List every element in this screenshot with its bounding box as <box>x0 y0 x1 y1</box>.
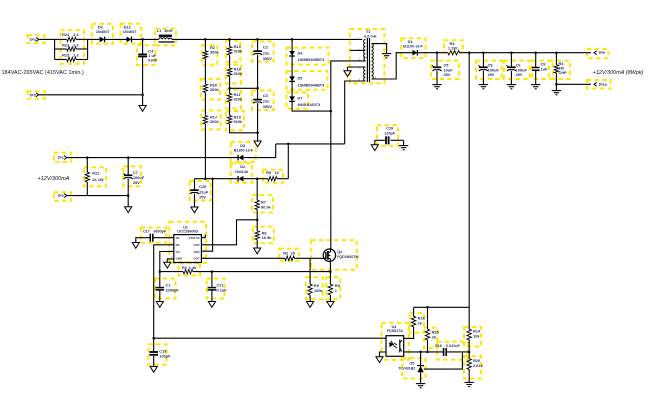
svg-text:TP5: TP5 <box>29 93 36 97</box>
ground output return (earth) <box>552 84 561 95</box>
highlight box D1 <box>401 38 425 58</box>
svg-text:10: 10 <box>275 170 279 175</box>
op-amp U1 UCC28600D <box>171 226 205 263</box>
highlight box R17 <box>201 111 221 130</box>
wire R19 bottom to bulk cap chain <box>230 124 258 133</box>
node R15 tap <box>426 306 429 309</box>
highlight box R9 <box>306 277 323 299</box>
svg-text:1 1W: 1 1W <box>448 45 457 50</box>
wire R2 to R20 <box>204 59 206 84</box>
svg-text:UCC28600D: UCC28600D <box>177 230 198 234</box>
highlight box TP1 <box>54 153 71 162</box>
svg-text:CS: CS <box>176 250 180 254</box>
svg-text:C16: C16 <box>435 344 442 348</box>
capacitor C17 6800pF <box>136 230 174 243</box>
wire U4 collector row <box>404 351 444 353</box>
svg-text:2k 1W: 2k 1W <box>92 177 104 182</box>
capacitor C5 10uF 25V <box>432 53 453 85</box>
highlight box C2 <box>252 41 274 61</box>
svg-text:300k: 300k <box>210 50 219 55</box>
node R4 tap <box>555 51 558 54</box>
wire snubber return to drain <box>292 101 331 111</box>
resistor R5 10 <box>263 170 278 181</box>
ground below C5 (earth) <box>432 84 441 86</box>
svg-text:910k: 910k <box>234 96 243 101</box>
svg-text:16.9k: 16.9k <box>262 235 273 240</box>
wire U5 ref to divider <box>424 352 463 369</box>
resistor R6 16.9k <box>255 220 272 248</box>
ground below C7 <box>125 207 132 213</box>
wire D2 to R5 <box>243 178 263 180</box>
svg-text:630V: 630V <box>148 58 157 63</box>
svg-text:+12V/300mA: +12V/300mA <box>38 176 70 182</box>
resistor R20 300k <box>203 82 219 92</box>
resistor R1 1.4k <box>160 265 331 274</box>
node balance tap right <box>256 87 259 90</box>
wire FB to optocoupler <box>154 245 386 338</box>
highlight box R18 <box>226 65 241 84</box>
highlight box C16 <box>437 342 468 360</box>
resistor R25 <box>55 53 88 62</box>
wire VDD node rail <box>195 178 239 180</box>
svg-text:R2: R2 <box>283 250 289 255</box>
highlight box U1 <box>169 222 206 263</box>
svg-text:1SMB5949BT3: 1SMB5949BT3 <box>298 83 326 88</box>
wire R11 to R19 <box>229 102 231 116</box>
highlight box C7 <box>123 166 141 186</box>
ground below R26 (earth) <box>465 381 474 383</box>
svg-text:D3: D3 <box>240 143 246 148</box>
ground below bulk caps <box>254 141 261 147</box>
svg-text:90.9k: 90.9k <box>261 204 272 209</box>
diode D6 1N4007 <box>96 25 110 43</box>
wire R20 to R17 <box>204 93 206 116</box>
resistor R8 1 <box>328 283 340 301</box>
resistor R17 300k <box>203 115 219 124</box>
node snubber/drain junction <box>330 110 333 113</box>
resistor R11 910k <box>227 92 243 102</box>
svg-text:910k: 910k <box>234 49 243 54</box>
ground below C6 (earth) <box>507 84 516 86</box>
node divider junction <box>468 351 471 354</box>
ground U4 emitter <box>376 357 383 363</box>
ground secondary top (earth) <box>382 53 391 55</box>
node C5 tap <box>436 51 439 54</box>
resistor R4 1M CHP <box>554 53 567 75</box>
node R15 bottom junction <box>426 351 429 354</box>
ground below C20 <box>191 207 198 213</box>
highlight box C29 <box>377 125 398 146</box>
highlight box D2 <box>231 163 253 182</box>
wire U4 emitter to ground <box>380 352 387 357</box>
wire R13 to R18 <box>229 55 231 68</box>
wire resistor network right bracket <box>87 39 89 59</box>
svg-text:910k: 910k <box>234 71 243 76</box>
node CS/R1/C1 junction <box>159 270 162 273</box>
wire primary bottom to drain line <box>331 61 366 249</box>
node C3 / R19 junction <box>256 132 259 135</box>
node C9 tap <box>534 51 537 54</box>
ground below R8 <box>327 302 334 308</box>
capacitor C21 0.1uF <box>208 272 228 302</box>
svg-text:1.4k: 1.4k <box>189 265 197 270</box>
svg-text:Q2: Q2 <box>337 250 342 254</box>
highlight box R14 <box>464 327 481 347</box>
node C21 tap <box>211 270 214 273</box>
highlight box D4 <box>287 48 329 65</box>
node R5 riser junction <box>287 143 290 146</box>
test point TP1 <box>57 156 67 160</box>
highlight box TP4 <box>28 35 45 43</box>
capacitor C8 100uF 25V <box>478 53 499 85</box>
highlight box U5 <box>402 358 425 378</box>
wire midpoint balance tap <box>230 87 258 89</box>
node C8 tap <box>482 51 485 54</box>
svg-text:U5: U5 <box>410 361 415 365</box>
diode D5 1SMB5949BT3 <box>289 76 325 88</box>
svg-text:MURA160T3: MURA160T3 <box>298 102 322 107</box>
highlight box U4 <box>381 323 409 360</box>
highlight box C21 <box>207 279 225 299</box>
resistor R18 910k <box>227 66 243 76</box>
wire R5 to riser <box>277 178 288 180</box>
ground below C8 (earth) <box>479 84 488 86</box>
node C6 tap <box>510 51 513 54</box>
svg-text:100pF: 100pF <box>159 354 171 359</box>
capacitor C9 1uF <box>532 53 548 85</box>
svg-text:TP9: TP9 <box>598 51 605 55</box>
wire Q2 source down <box>329 261 331 284</box>
ground below C4 <box>139 95 146 112</box>
highlight box D7 <box>287 92 309 108</box>
wire resistor network left bracket <box>54 39 56 59</box>
node FB/C19 junction <box>152 337 155 340</box>
node rail R2 tap <box>204 38 207 41</box>
diode D7 MURA160T3 <box>289 96 321 108</box>
wire D3 anode to riser <box>243 157 275 159</box>
svg-text:C2: C2 <box>263 45 269 50</box>
svg-text:VDD: VDD <box>193 250 199 254</box>
svg-text:GND: GND <box>176 257 182 261</box>
highlight box D12 <box>121 24 142 44</box>
wire R5 riser <box>287 144 289 179</box>
node R7 top junction <box>256 177 259 180</box>
wire R4 to return rail <box>555 73 557 84</box>
highlight box D3 <box>231 142 256 162</box>
node C7 top <box>127 156 130 159</box>
svg-text:TP10: TP10 <box>598 83 607 87</box>
wire D4 to D5 <box>291 56 293 76</box>
optocoupler U4 FOD817A <box>386 325 404 356</box>
wire OVP step <box>201 220 257 245</box>
highlight box C4 <box>137 45 156 65</box>
wire TP1 rail to D3 <box>67 157 238 159</box>
highlight box C8 <box>476 61 502 79</box>
svg-text:D4: D4 <box>298 50 304 55</box>
diode D3 B1100-13-F <box>234 143 254 160</box>
svg-text:OVP: OVP <box>193 243 199 247</box>
diode D1 B1100-13-F <box>403 39 423 56</box>
highlight box R6 <box>253 227 274 244</box>
svg-text:SS: SS <box>176 236 180 240</box>
svg-text:0.022uF: 0.022uF <box>446 344 460 348</box>
node source/R1 junction <box>329 270 332 273</box>
node C4 tap junction <box>141 38 144 41</box>
wire network to D6 <box>88 38 100 40</box>
node R7/R6 junction <box>256 219 259 222</box>
resistor R24 <box>55 32 88 42</box>
highlight box R20 <box>201 79 220 100</box>
svg-text:B1100-13-F: B1100-13-F <box>234 149 254 153</box>
svg-text:350V: 350V <box>263 56 272 61</box>
node neutral/C4 junction <box>141 94 144 97</box>
ground below C1 <box>156 302 163 308</box>
ground below U5 (earth) <box>416 383 425 385</box>
highlight box TP5 <box>28 91 46 98</box>
svg-text:300k: 300k <box>210 119 219 124</box>
ground below R9 <box>307 302 314 308</box>
highlight box C9 <box>532 61 553 79</box>
svg-text:1N4007: 1N4007 <box>96 29 110 34</box>
resistor R2 10 (gate) <box>283 250 295 260</box>
wire gate resistor to Q2 <box>294 257 323 259</box>
svg-text:10k: 10k <box>473 334 480 339</box>
svg-text:D1: D1 <box>408 39 414 44</box>
highlight box R19 <box>226 111 244 130</box>
highlight box R4 <box>549 61 570 79</box>
node VDD riser junction <box>211 177 214 180</box>
capacitor C16 0.022uF <box>435 344 469 356</box>
resistor R3 1 1W <box>446 41 460 55</box>
svg-text:22u: 22u <box>263 50 270 55</box>
diode D12 1N4007 <box>123 25 137 43</box>
wire D5 to D7 <box>291 81 293 96</box>
ground below C21 <box>208 302 215 308</box>
wire D3 riser <box>275 144 277 158</box>
svg-text:FOD817A: FOD817A <box>387 329 404 333</box>
svg-text:R23: R23 <box>62 42 70 47</box>
wire feedback top rail <box>414 306 470 308</box>
resistor R2 300k <box>203 39 219 58</box>
svg-text:22u: 22u <box>263 99 270 104</box>
capacitor C1 1000pF <box>156 272 180 302</box>
ground below C9 (earth) <box>531 84 540 86</box>
svg-text:CHP: CHP <box>558 70 567 75</box>
highlight box C17 <box>141 228 167 243</box>
svg-text:1uF: 1uF <box>541 66 549 71</box>
diode D4 1SMB5949BT3 <box>289 39 325 62</box>
resistor R9 100k <box>308 258 323 301</box>
wire secondary bottom to D1 <box>372 53 413 79</box>
wire TP4 to resistor network <box>39 38 54 40</box>
svg-text:FQD2N60TM: FQD2N60TM <box>337 255 358 259</box>
node rail snubber tap <box>291 38 294 41</box>
svg-text:25V: 25V <box>133 180 140 185</box>
svg-text:220pF: 220pF <box>384 131 395 135</box>
wire primary centre tap stub <box>350 49 366 51</box>
resistor R22 2k 1W <box>85 158 104 196</box>
highlight box TP10 <box>587 80 611 89</box>
svg-text:25V: 25V <box>488 72 495 77</box>
svg-text:1mH: 1mH <box>164 28 173 33</box>
ground below R6 <box>254 248 261 254</box>
inductor L1 1mH <box>157 28 175 43</box>
capacitor C7 100uF 25V <box>123 158 144 207</box>
svg-text:25V: 25V <box>199 194 206 199</box>
wire output return rail <box>556 83 591 85</box>
svg-text:184VAC-265VAC (415VAC 1min.): 184VAC-265VAC (415VAC 1min.) <box>2 70 84 76</box>
highlight box R24/R23/R25 network <box>60 30 84 64</box>
highlight box T1 <box>350 29 385 83</box>
resistor R19 910k <box>227 115 243 124</box>
wire OUT to gate resistor <box>201 257 284 259</box>
svg-text:1SMB5949BT3: 1SMB5949BT3 <box>298 57 326 62</box>
svg-text:C17: C17 <box>143 230 150 234</box>
ground aux winding top <box>344 67 351 77</box>
ground below C19 <box>150 367 157 373</box>
highlight box C19 <box>148 344 166 365</box>
wire output rail <box>459 52 591 54</box>
highlight box R13 <box>226 41 240 62</box>
capacitor C19 100pF <box>149 338 171 366</box>
highlight box C1 <box>155 279 176 299</box>
highlight box C6 <box>504 61 530 79</box>
svg-text:FB: FB <box>176 243 180 247</box>
svg-text:C3: C3 <box>263 93 269 98</box>
wire TP5 neutral rail <box>39 94 142 96</box>
test point TP2 <box>57 194 67 198</box>
resistor R13 910k <box>227 39 243 55</box>
wire U4 anode to R16 <box>404 327 414 339</box>
highlight box TP9 <box>587 49 608 58</box>
node U5 tap <box>419 351 422 354</box>
svg-text:TP1: TP1 <box>57 156 64 160</box>
wire GND pin <box>167 259 174 262</box>
svg-text:6800pF: 6800pF <box>154 230 167 234</box>
capacitor C20 22uF 25V <box>190 179 209 207</box>
wire TP2 rail <box>67 195 128 197</box>
capacitor C6 100uF 25V <box>506 53 527 85</box>
wire secondary top to ground <box>372 44 387 54</box>
wire CS to sense node <box>160 252 174 272</box>
highlight box R16 <box>410 313 424 333</box>
wire STATUS stub <box>201 235 205 238</box>
highlight box R3 <box>444 40 463 52</box>
highlight box R15 <box>424 328 437 349</box>
svg-text:25V: 25V <box>444 72 451 77</box>
svg-text:1000pF: 1000pF <box>165 288 179 293</box>
highlight box C20 <box>190 181 211 201</box>
highlight box L1 <box>155 29 176 46</box>
wire R17 to VDD node <box>204 124 206 179</box>
highlight box D6 <box>92 24 113 44</box>
resistor R14 10k <box>467 329 481 352</box>
test point TP4 <box>29 38 39 42</box>
highlight box R7 <box>252 195 273 212</box>
shunt regulator U5 TLV431B2 <box>398 352 424 384</box>
ground C29 left (arrow) <box>371 140 378 150</box>
test point TP5 <box>29 93 39 97</box>
svg-text:910k: 910k <box>234 119 243 124</box>
transistor Q2 FQD2N60TM <box>323 248 358 261</box>
svg-text:TP2: TP2 <box>57 194 64 198</box>
highlight box R2 <box>202 45 217 65</box>
node feedback tap <box>468 51 471 54</box>
wire aux bottom to bias node <box>345 81 366 144</box>
svg-text:2.3: 2.3 <box>73 32 79 37</box>
highlight box C3 <box>252 90 274 110</box>
highlight box D5 <box>287 71 328 90</box>
ground below C17 <box>132 243 139 249</box>
capacitor C2 22u 350V <box>253 39 272 99</box>
svg-text:R5: R5 <box>266 170 272 175</box>
svg-text:STATUS: STATUS <box>188 236 199 240</box>
svg-text:R24: R24 <box>62 32 70 37</box>
highlight box R1 <box>179 262 201 275</box>
svg-text:10: 10 <box>291 250 295 255</box>
wire R18 to R11 <box>229 77 231 94</box>
svg-text:0.1uF: 0.1uF <box>217 288 228 293</box>
node R22 top <box>86 156 89 159</box>
highlight box R2 gate <box>279 249 299 261</box>
test point TP9 <box>594 51 605 55</box>
svg-text:OUT: OUT <box>193 257 199 261</box>
svg-text:D7: D7 <box>298 96 303 101</box>
svg-text:6.0 mH: 6.0 mH <box>364 34 376 38</box>
wire D1 to R3 <box>417 52 446 54</box>
wire L1 to transformer primary <box>172 38 362 40</box>
svg-text:C29: C29 <box>386 126 393 130</box>
resistor R7 90.9k <box>255 179 272 220</box>
node return junction <box>555 83 558 86</box>
highlight box C5 <box>431 61 459 79</box>
svg-text:R22: R22 <box>92 171 100 176</box>
capacitor C29 220pF <box>375 126 404 144</box>
node balance tap left <box>228 87 231 90</box>
resistor R16 1k <box>411 307 425 327</box>
wire D6 to D12 <box>105 38 127 40</box>
resistor R23 <box>55 42 88 51</box>
svg-text:B1100-13-F: B1100-13-F <box>403 45 423 49</box>
highlight box R22 <box>84 167 106 186</box>
highlight box TP2 <box>54 192 71 201</box>
highlight box R5 <box>263 170 283 183</box>
svg-text:2.61k: 2.61k <box>473 363 484 368</box>
wire D12 to L1 <box>132 38 159 40</box>
wire feedback vertical drop <box>468 53 470 330</box>
svg-text:2.3: 2.3 <box>73 53 79 58</box>
node C7 / TP2 junction <box>127 194 130 197</box>
highlight box Q2 <box>311 240 357 270</box>
svg-text:R25: R25 <box>62 53 70 58</box>
test point TP10 <box>594 82 607 86</box>
highlight box R26 <box>464 356 481 379</box>
capacitor C4 1uF 630V <box>138 39 158 94</box>
ground C29 right (earth) <box>399 140 408 150</box>
svg-text:2.3: 2.3 <box>73 42 79 47</box>
svg-text:300k: 300k <box>210 87 219 92</box>
svg-text:1N4007: 1N4007 <box>123 29 137 34</box>
highlight box R11 <box>226 90 241 109</box>
node rail C2 tap <box>256 38 259 41</box>
svg-text:D5: D5 <box>298 76 304 81</box>
svg-text:R1: R1 <box>182 265 188 270</box>
svg-text:1N4148: 1N4148 <box>235 170 248 174</box>
svg-text:TP4: TP4 <box>29 38 36 42</box>
wire VDD riser <box>201 179 212 252</box>
svg-text:TLV431B2: TLV431B2 <box>398 367 415 371</box>
diode D2 1N4148 <box>235 164 248 181</box>
